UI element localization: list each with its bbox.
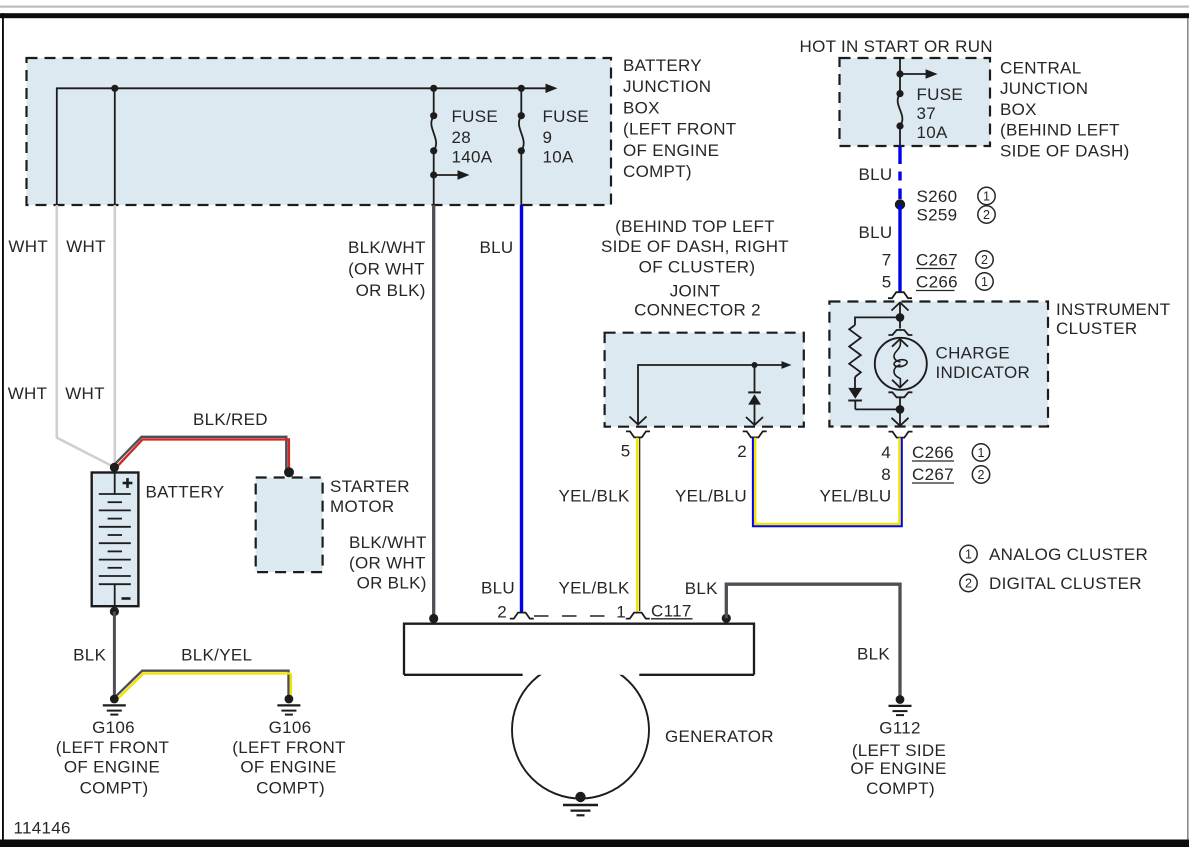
svg-text:(LEFT FRONT: (LEFT FRONT [623, 120, 737, 139]
joint connector 2 location label [601, 217, 789, 276]
svg-text:10A: 10A [543, 148, 575, 167]
svg-text:BATTERY: BATTERY [146, 483, 225, 502]
svg-text:FUSE: FUSE [452, 107, 499, 126]
svg-text:C266: C266 [912, 443, 954, 462]
svg-text:1: 1 [983, 189, 990, 203]
connector cup C266 top of cluster [888, 292, 912, 298]
connector cup generator pin 2 [510, 613, 534, 619]
svg-text:(BEHIND TOP LEFT: (BEHIND TOP LEFT [615, 217, 775, 236]
svg-text:SIDE OF DASH, RIGHT: SIDE OF DASH, RIGHT [601, 237, 789, 256]
circled 2 for C267 lower [972, 466, 989, 483]
svg-text:2: 2 [965, 576, 972, 590]
svg-text:HOT IN START OR RUN: HOT IN START OR RUN [800, 37, 993, 56]
svg-text:S260: S260 [917, 187, 958, 206]
node junction dot [430, 85, 437, 92]
svg-text:ANALOG CLUSTER: ANALOG CLUSTER [989, 545, 1148, 564]
svg-text:2: 2 [981, 253, 988, 267]
connector cup below JC2 pin 2 [743, 431, 767, 437]
WHT label row 1 [8, 237, 105, 256]
wire BLU CJB to splice (dashed) [898, 146, 901, 199]
svg-text:BLU: BLU [480, 238, 514, 257]
svg-text:WHT: WHT [66, 237, 106, 256]
C117 dashed connector line [534, 615, 606, 617]
frame top black bar [0, 13, 1189, 18]
node junction dot [111, 85, 118, 92]
wire BLK/RED battery to starter [114, 437, 289, 470]
ground G106 right [277, 695, 300, 715]
svg-text:JUNCTION: JUNCTION [1000, 79, 1088, 98]
diode in cluster [848, 388, 862, 410]
connector cup below JC2 pin 5 [626, 431, 650, 437]
wire BLK generator to G112 [726, 584, 900, 696]
resistor in cluster [849, 325, 861, 377]
pin 8 C267 label [881, 465, 954, 484]
svg-text:7: 7 [882, 251, 892, 270]
svg-text:YEL/BLK: YEL/BLK [559, 486, 630, 505]
svg-text:1: 1 [978, 446, 985, 460]
branch wire diode to node [855, 408, 900, 410]
svg-text:G106: G106 [269, 718, 312, 737]
svg-text:YEL/BLU: YEL/BLU [675, 486, 747, 505]
svg-text:BOX: BOX [1000, 100, 1037, 119]
svg-text:BLU: BLU [859, 223, 893, 242]
svg-text:CENTRAL: CENTRAL [1000, 59, 1081, 78]
BLK/WHT lower label [349, 533, 427, 593]
svg-text:OR BLK): OR BLK) [356, 281, 426, 300]
svg-text:9: 9 [543, 128, 553, 147]
connector cup below cluster [889, 432, 913, 438]
BJB label text [623, 56, 737, 181]
wire BLK/WHT fuse 28 to generator [432, 205, 435, 616]
svg-text:(BEHIND LEFT: (BEHIND LEFT [1000, 121, 1120, 140]
svg-text:4: 4 [881, 443, 891, 462]
svg-text:28: 28 [452, 128, 472, 147]
fuse 28 140A [430, 88, 437, 205]
svg-text:INSTRUMENT: INSTRUMENT [1056, 300, 1170, 319]
svg-text:JOINT: JOINT [670, 281, 721, 300]
frame bottom black bar [0, 840, 1189, 847]
circled 1 for C266 [976, 273, 993, 290]
BLK/WHT upper label [348, 238, 426, 300]
svg-text:FUSE: FUSE [917, 85, 964, 104]
svg-text:G106: G106 [92, 718, 135, 737]
battery [92, 473, 139, 607]
legend circled 1 [960, 545, 977, 562]
svg-text:8: 8 [881, 465, 891, 484]
svg-text:(LEFT FRONT: (LEFT FRONT [232, 738, 346, 757]
wire YEL/BLU JC2 pin2 to cluster [753, 438, 902, 527]
wire BLK battery to ground [113, 612, 116, 698]
svg-text:JUNCTION: JUNCTION [623, 77, 711, 96]
wire YEL/BLK JC2 to generator [637, 438, 639, 613]
svg-text:STARTER: STARTER [330, 477, 410, 496]
svg-text:DIGITAL CLUSTER: DIGITAL CLUSTER [989, 574, 1142, 593]
cluster exit wire arrow [892, 409, 909, 425]
fuse 37 10A [896, 90, 903, 146]
JC2 bus wire with arrow [630, 361, 792, 424]
generator circle [512, 662, 649, 799]
CJB label text [1000, 59, 1130, 161]
svg-text:OF CLUSTER): OF CLUSTER) [639, 257, 756, 276]
svg-text:BLK/WHT: BLK/WHT [348, 238, 426, 257]
svg-text:OF ENGINE: OF ENGINE [623, 141, 719, 160]
wire BLU fuse 9 to generator [520, 205, 523, 612]
circled 1 for S260 [978, 187, 995, 204]
C117 label [651, 602, 693, 621]
CHARGE INDICATOR label [936, 344, 1031, 383]
G106 left label [56, 718, 170, 798]
svg-text:2: 2 [497, 603, 507, 622]
svg-text:114146: 114146 [14, 819, 71, 838]
node junction dot [518, 85, 525, 92]
svg-text:BLK/WHT: BLK/WHT [349, 533, 427, 552]
svg-text:WHT: WHT [8, 237, 48, 256]
battery junction box BJB [27, 58, 612, 205]
svg-text:BLK/YEL: BLK/YEL [181, 646, 252, 665]
svg-text:WHT: WHT [65, 384, 105, 403]
svg-text:COMPT): COMPT) [256, 779, 325, 798]
svg-text:1: 1 [981, 275, 988, 289]
svg-text:OF ENGINE: OF ENGINE [850, 759, 946, 778]
pin 5 C266 label [882, 273, 958, 292]
svg-text:5: 5 [621, 442, 631, 461]
svg-text:INDICATOR: INDICATOR [936, 363, 1031, 382]
resistor lead to diode [854, 377, 856, 388]
battery negative node dot [110, 607, 119, 616]
splice S260 S259 [895, 199, 905, 209]
circled 1 for C266 lower [972, 444, 989, 461]
svg-text:OF ENGINE: OF ENGINE [64, 758, 160, 777]
CJB feed wire with arrow [896, 58, 937, 94]
node dot with arrow below fuse 28 [430, 170, 469, 179]
svg-text:FUSE: FUSE [543, 107, 590, 126]
svg-text:BOX: BOX [623, 98, 660, 117]
connector cup generator pin 1 [626, 613, 650, 619]
G106 right label [232, 718, 346, 798]
svg-text:YEL/BLK: YEL/BLK [559, 579, 630, 598]
svg-text:(LEFT FRONT: (LEFT FRONT [56, 738, 170, 757]
ground G112 [889, 695, 912, 715]
svg-text:C267: C267 [912, 465, 954, 484]
svg-text:CHARGE: CHARGE [936, 344, 1011, 363]
wire dot to lamp [899, 317, 901, 328]
svg-text:BLK/RED: BLK/RED [193, 410, 268, 429]
node dot cluster bottom [896, 405, 905, 414]
circled 2 for S259 [978, 206, 995, 223]
svg-text:MOTOR: MOTOR [330, 497, 394, 516]
svg-text:2: 2 [737, 442, 747, 461]
wire BLK/YEL between grounds [114, 671, 291, 701]
pin 4 C266 label [881, 443, 954, 462]
svg-text:BLK: BLK [685, 579, 718, 598]
svg-text:5: 5 [882, 273, 892, 292]
generator ground [563, 792, 598, 816]
svg-text:10A: 10A [917, 123, 949, 142]
svg-text:2: 2 [983, 208, 990, 222]
svg-text:(LEFT SIDE: (LEFT SIDE [852, 741, 946, 760]
svg-text:S259: S259 [917, 206, 958, 225]
wire WHT right [114, 205, 117, 463]
svg-text:C267: C267 [916, 251, 958, 270]
wire WHT left [57, 205, 114, 467]
pin 7 C267 label [882, 251, 958, 270]
svg-text:YEL/BLU: YEL/BLU [819, 486, 891, 505]
generator body rectangle [404, 624, 754, 675]
svg-text:CONNECTOR 2: CONNECTOR 2 [634, 301, 761, 320]
svg-text:140A: 140A [452, 148, 493, 167]
svg-text:COMPT): COMPT) [623, 162, 692, 181]
charge indicator lamp [875, 338, 927, 390]
svg-text:BLU: BLU [481, 579, 515, 598]
svg-text:BLU: BLU [859, 165, 893, 184]
svg-text:OR BLK): OR BLK) [357, 574, 427, 593]
cluster entry arrow [892, 303, 909, 314]
svg-text:G112: G112 [879, 719, 921, 738]
node dot cluster top [896, 313, 905, 322]
fuse 9 value label [543, 107, 590, 167]
svg-text:CLUSTER: CLUSTER [1056, 319, 1137, 338]
starter motor node dot [284, 467, 294, 477]
svg-text:C266: C266 [916, 273, 958, 292]
node dot JC2 [752, 362, 758, 368]
svg-text:GENERATOR: GENERATOR [665, 727, 774, 746]
frame top gray line [0, 6, 1189, 8]
joint connector 2 box [605, 333, 804, 427]
central junction box CJB [840, 58, 991, 146]
svg-text:SIDE OF DASH): SIDE OF DASH) [1000, 141, 1130, 160]
fuse 28 value label [452, 107, 499, 167]
svg-text:37: 37 [917, 104, 937, 123]
branch wire to resistor [855, 317, 900, 325]
JOINT CONNECTOR 2 label [634, 281, 761, 319]
starter motor box [256, 478, 323, 573]
wire lamp to node dot [899, 397, 901, 409]
instrument cluster box [829, 302, 1048, 427]
svg-text:BATTERY: BATTERY [623, 56, 702, 75]
svg-text:COMPT): COMPT) [80, 779, 149, 798]
wire BLU splice to cluster [898, 205, 901, 292]
svg-text:1: 1 [616, 603, 626, 622]
G112 label [850, 719, 946, 799]
frame left border [2, 13, 4, 847]
lamp bottom cup [888, 392, 912, 397]
STARTER MOTOR label [330, 477, 410, 516]
frame right border [1187, 18, 1189, 840]
svg-text:BLK: BLK [857, 645, 890, 664]
battery positive node dot [110, 463, 119, 472]
WHT label row 2 [8, 384, 105, 403]
ground G106 left [103, 695, 126, 715]
node dot BLK/WHT at generator [429, 614, 438, 623]
svg-text:COMPT): COMPT) [866, 779, 935, 798]
circled 2 for C267 [976, 251, 993, 268]
svg-text:2: 2 [978, 468, 985, 482]
svg-text:WHT: WHT [8, 384, 48, 403]
fuse 37 value label [917, 85, 964, 142]
node dot BLK at generator [722, 614, 731, 623]
fuse 9 10A [518, 88, 525, 205]
svg-text:(OR WHT: (OR WHT [348, 260, 425, 279]
BJB bus wire [57, 84, 558, 205]
lamp top cup [888, 330, 912, 335]
splice labels [917, 187, 958, 225]
svg-text:1: 1 [965, 547, 972, 561]
svg-text:BLK: BLK [73, 646, 106, 665]
diode in JC2 [746, 365, 763, 425]
INSTRUMENT CLUSTER label [1056, 300, 1170, 338]
svg-text:OF ENGINE: OF ENGINE [240, 758, 336, 777]
svg-text:C117: C117 [651, 602, 692, 621]
legend circled 2 [960, 574, 977, 591]
svg-text:(OR WHT: (OR WHT [349, 553, 426, 572]
